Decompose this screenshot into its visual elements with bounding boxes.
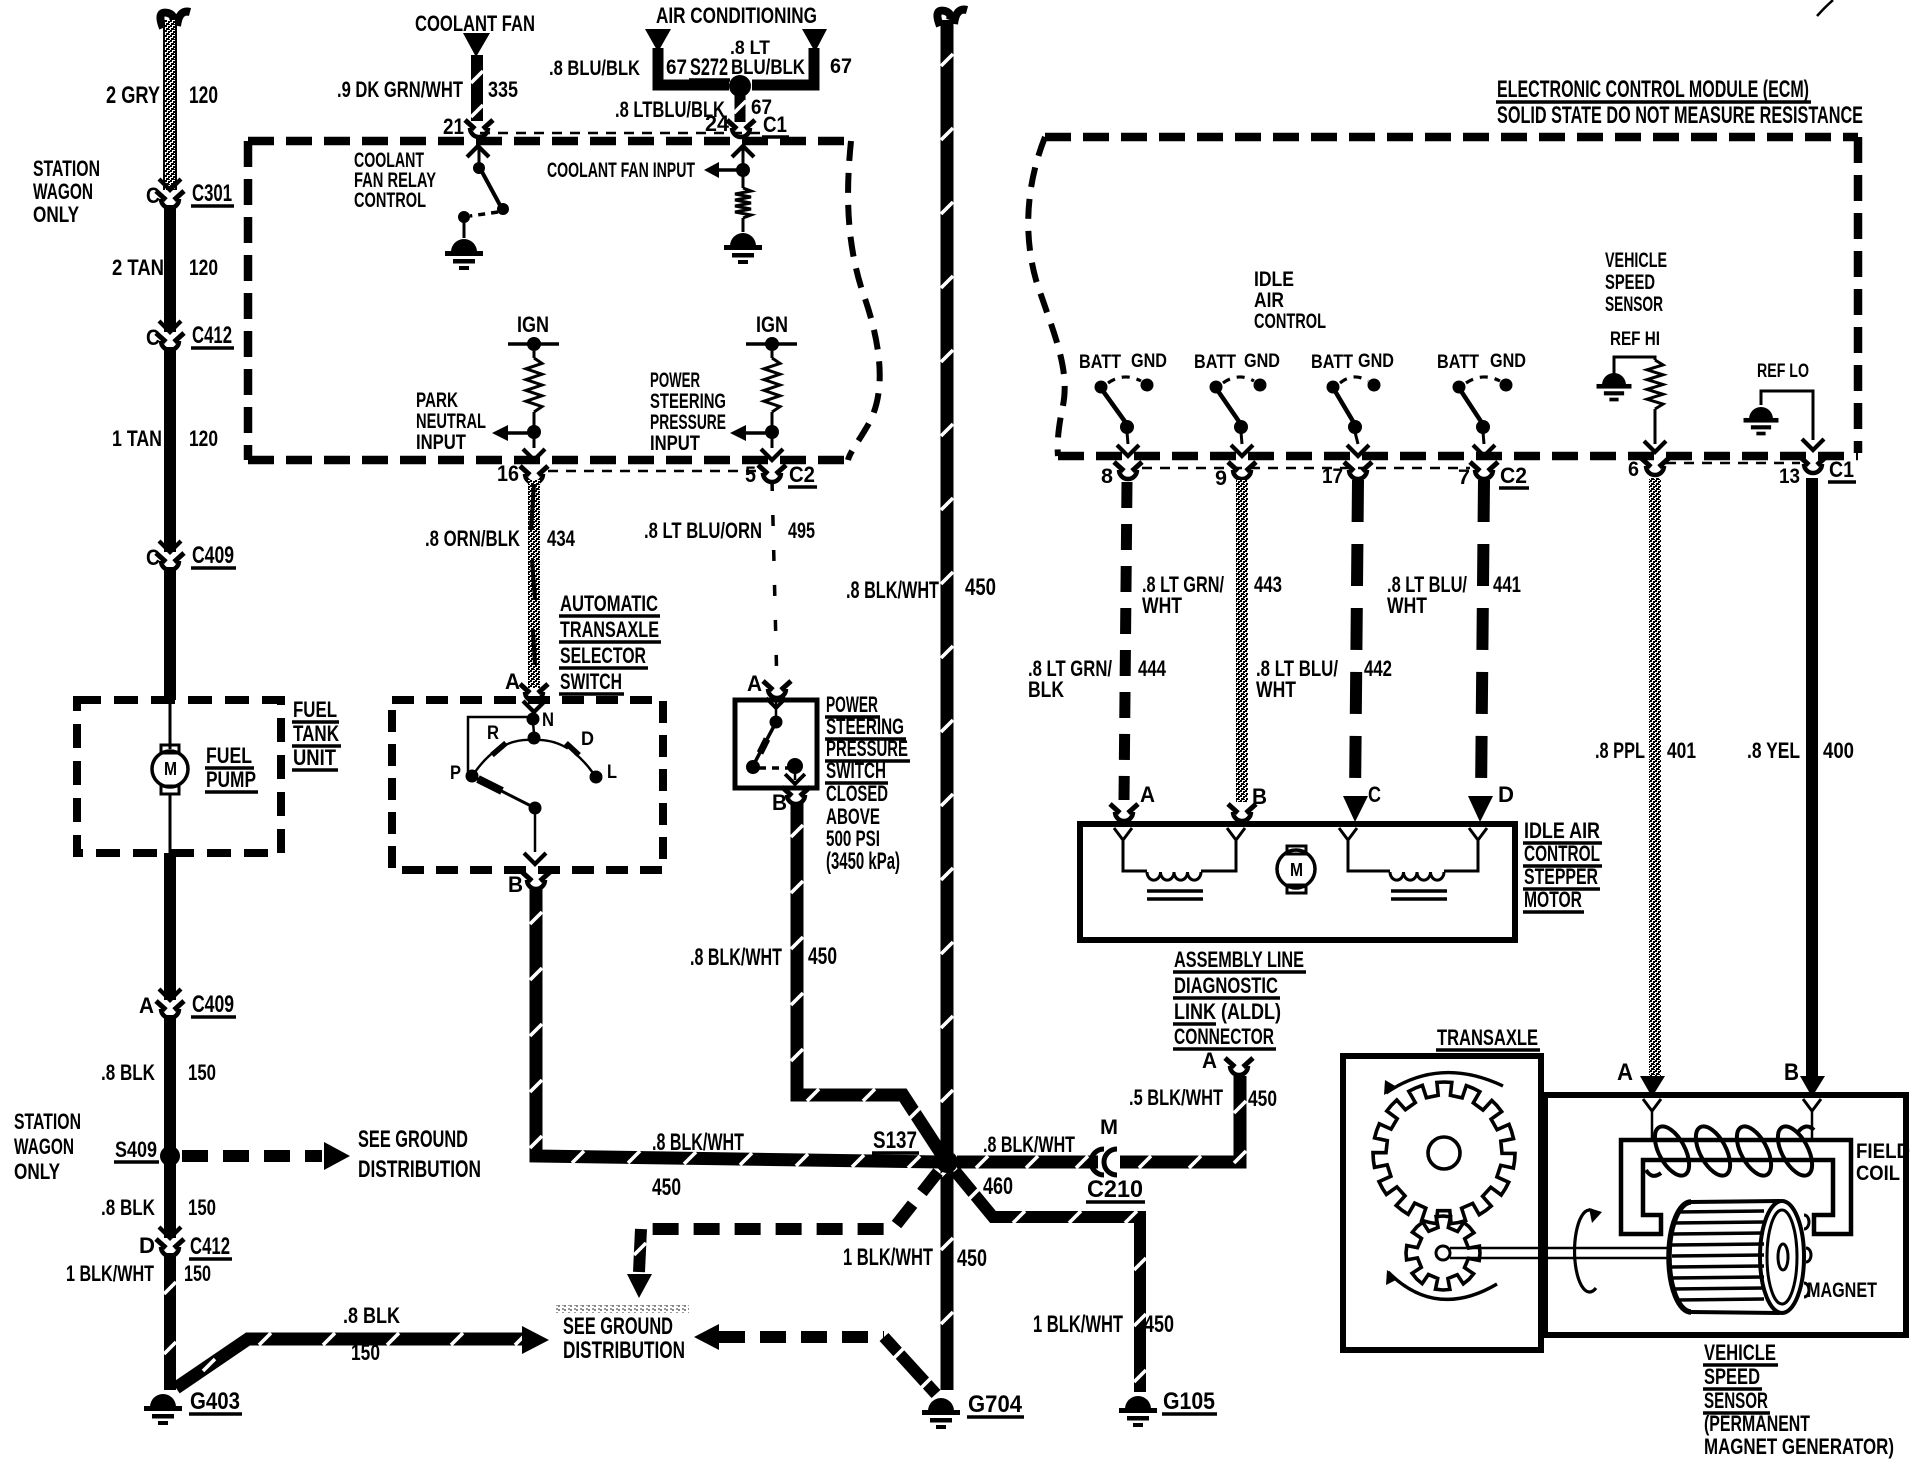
ground at coolant fan input xyxy=(730,233,756,246)
svg-text:CONTROL: CONTROL xyxy=(354,189,426,212)
svg-text:7: 7 xyxy=(1458,466,1470,489)
svg-text:442: 442 xyxy=(1364,656,1392,681)
C2 connector dashed line (right box) xyxy=(1142,467,1470,470)
svg-text:C: C xyxy=(1368,782,1381,807)
arrow down pin 7 xyxy=(1473,445,1495,456)
svg-text:500 PSI: 500 PSI xyxy=(826,826,880,851)
arrow down pin 6 xyxy=(1644,441,1666,452)
field coil winding xyxy=(1648,1121,1696,1181)
IGN bar (park neutral) xyxy=(508,342,559,346)
svg-text:SOLID STATE DO NOT MEASURE RES: SOLID STATE DO NOT MEASURE RESISTANCE xyxy=(1497,103,1863,129)
driver GND contact (pin 7) xyxy=(1500,379,1513,392)
svg-text:CLOSED: CLOSED xyxy=(826,781,888,806)
ps contact top xyxy=(770,716,783,729)
selector wiper pivot xyxy=(529,802,542,815)
arrow down to pin (power steering) xyxy=(761,449,783,460)
svg-text:GND: GND xyxy=(1131,350,1167,372)
wire dashed to G704 xyxy=(719,1331,884,1343)
wire .8 PPL 401 xyxy=(1649,478,1661,1076)
svg-text:C412: C412 xyxy=(190,1234,230,1260)
fuel tank unit box xyxy=(77,700,281,853)
relay switch arm xyxy=(481,170,501,207)
svg-text:L: L xyxy=(607,761,617,783)
resistor (power steering) xyxy=(771,351,774,358)
wire 1 TAN 120 xyxy=(164,347,176,552)
svg-text:AUTOMATIC: AUTOMATIC xyxy=(560,591,658,616)
selector wire to B xyxy=(534,812,537,852)
driver dashed arc (pin 17) xyxy=(1340,377,1368,383)
IGN bar (power steering) xyxy=(746,342,797,346)
svg-text:A: A xyxy=(1202,1048,1217,1073)
connector C409 lower (A) xyxy=(159,989,181,1000)
svg-text:REF LO: REF LO xyxy=(1757,360,1809,382)
magnet cylinder xyxy=(1669,1202,1691,1312)
wire .8 ORN/BLK 434 xyxy=(528,480,540,688)
selector wiper xyxy=(472,776,535,808)
svg-text:150: 150 xyxy=(184,1261,211,1286)
svg-text:UNIT: UNIT xyxy=(293,745,336,770)
svg-text:WAGON: WAGON xyxy=(33,179,93,204)
wire to pin 8 xyxy=(1127,432,1128,444)
driver arm contact (pin 9) xyxy=(1234,420,1248,434)
ground at coolant fan relay xyxy=(451,239,477,252)
ps arrow out xyxy=(794,772,797,780)
svg-text:9: 9 xyxy=(1215,467,1227,490)
svg-text:BATT: BATT xyxy=(1194,351,1236,373)
svg-text:.9 DK GRN/WHT: .9 DK GRN/WHT xyxy=(337,77,463,102)
svg-text:M: M xyxy=(164,759,177,779)
connector C412 lower (D) xyxy=(159,1227,181,1238)
svg-text:B: B xyxy=(772,790,787,815)
driver BATT contact (pin 9) xyxy=(1210,381,1223,394)
svg-text:COOLANT FAN INPUT: COOLANT FAN INPUT xyxy=(547,159,695,182)
svg-text:ASSEMBLY LINE: ASSEMBLY LINE xyxy=(1174,947,1304,972)
svg-text:WHT: WHT xyxy=(1256,677,1296,702)
ground at REF LO xyxy=(1749,407,1773,419)
wire .8 LT BLU/ORN 495 xyxy=(772,480,777,688)
wire 1 BLK/WHT 450 to G105 xyxy=(955,1171,1140,1392)
vss shaft xyxy=(1450,1247,1668,1250)
coolant fan input arrow xyxy=(704,162,719,178)
svg-text:1 TAN: 1 TAN xyxy=(112,426,162,451)
svg-text:(3450 kPa): (3450 kPa) xyxy=(826,849,900,875)
REF HI resistor xyxy=(1647,360,1663,409)
stray mark top right xyxy=(1817,0,1833,16)
svg-text:495: 495 xyxy=(788,518,815,543)
wire to pin (park neutral) xyxy=(533,436,536,448)
svg-text:.8 BLK/WHT: .8 BLK/WHT xyxy=(690,945,782,971)
arrow down see ground xyxy=(627,1274,652,1298)
coolant fan input arrow up xyxy=(732,146,754,157)
svg-text:16: 16 xyxy=(497,461,519,486)
svg-text:TRANSAXLE: TRANSAXLE xyxy=(1437,1025,1538,1050)
svg-text:FUEL: FUEL xyxy=(206,743,252,768)
svg-text:PUMP: PUMP xyxy=(206,767,256,792)
svg-text:.8 ORN/BLK: .8 ORN/BLK xyxy=(425,526,520,551)
svg-text:AIR: AIR xyxy=(1254,289,1284,312)
stepper motor M xyxy=(1287,846,1306,854)
svg-text:335: 335 xyxy=(488,77,518,102)
svg-text:450: 450 xyxy=(1144,1312,1174,1338)
svg-text:B: B xyxy=(1252,784,1267,809)
input arrow (park neutral) xyxy=(492,425,508,441)
node (power steering) xyxy=(765,425,779,439)
connector C210 (M) xyxy=(1091,1149,1104,1175)
stepper pin C vee xyxy=(1339,828,1357,840)
svg-text:G704: G704 xyxy=(968,1392,1023,1418)
svg-text:5: 5 xyxy=(745,462,756,487)
svg-text:120: 120 xyxy=(189,255,218,280)
svg-text:AIR CONDITIONING: AIR CONDITIONING xyxy=(656,3,817,28)
wire 442 (.8 LT BLU/WHT) xyxy=(1355,480,1358,800)
svg-text:120: 120 xyxy=(189,83,218,109)
svg-text:2 GRY: 2 GRY xyxy=(106,83,160,109)
driver GND contact (pin 17) xyxy=(1368,379,1381,392)
A/C arrow right xyxy=(802,29,827,52)
svg-text:WHT: WHT xyxy=(1142,593,1182,618)
stepper pin C arrow xyxy=(1343,796,1368,822)
stepper pin B cup xyxy=(1228,804,1238,813)
stepper right winding xyxy=(1348,840,1390,871)
svg-text:STATION: STATION xyxy=(14,1109,81,1134)
svg-text:BATT: BATT xyxy=(1311,351,1353,373)
svg-text:CONTROL: CONTROL xyxy=(1254,310,1326,333)
connector C412 xyxy=(159,321,181,332)
selector bracket to P xyxy=(468,717,527,772)
svg-text:IDLE: IDLE xyxy=(1254,268,1294,291)
svg-text:450: 450 xyxy=(652,1175,681,1201)
selector arrow in xyxy=(523,701,545,712)
svg-text:450: 450 xyxy=(957,1246,987,1272)
selector gate arc xyxy=(475,740,593,773)
svg-text:443: 443 xyxy=(1254,572,1282,597)
driver dashed arc (pin 9) xyxy=(1223,377,1254,383)
svg-text:C409: C409 xyxy=(192,543,234,569)
svg-text:A: A xyxy=(1617,1060,1633,1086)
coolant fan arrow xyxy=(463,33,490,57)
ps contact bl xyxy=(746,760,760,774)
driver GND contact (pin 8) xyxy=(1141,379,1154,392)
svg-text:21: 21 xyxy=(443,114,464,139)
wire .8 BLK 150 lower xyxy=(164,1160,176,1238)
svg-text:S409: S409 xyxy=(115,1137,157,1162)
wire below fuel tank xyxy=(164,853,176,1000)
svg-text:NEUTRAL: NEUTRAL xyxy=(416,410,486,433)
wire .8 BLK/WHT 450 (main vertical) xyxy=(941,20,954,1390)
selector R contact xyxy=(492,743,506,755)
svg-text:IGN: IGN xyxy=(756,312,788,337)
driver BATT contact (pin 17) xyxy=(1327,381,1340,394)
svg-text:A: A xyxy=(1140,782,1155,807)
idle air control stepper motor box xyxy=(1080,824,1515,940)
ground G105 xyxy=(1125,1396,1151,1409)
ground at REF HI xyxy=(1602,373,1626,385)
wire into pump xyxy=(169,700,172,749)
svg-text:.8 YEL: .8 YEL xyxy=(1747,738,1800,763)
node (park neutral) xyxy=(527,425,541,439)
driver BATT contact (pin 8) xyxy=(1095,381,1108,394)
svg-text:C: C xyxy=(146,545,160,570)
svg-text:DISTRIBUTION: DISTRIBUTION xyxy=(358,1157,481,1183)
resistor (park neutral) xyxy=(533,351,536,358)
arrow down pin 9 xyxy=(1231,445,1253,456)
arrow to see ground distribution (right) xyxy=(324,1142,350,1170)
svg-text:P: P xyxy=(450,762,461,784)
wire to pin (power steering) xyxy=(771,436,774,448)
selector N contact xyxy=(527,713,540,726)
svg-text:MAGNET GENERATOR): MAGNET GENERATOR) xyxy=(1704,1434,1894,1459)
wire .8 BLK 150 upper xyxy=(164,1015,176,1148)
svg-text:N: N xyxy=(542,709,554,731)
svg-text:13: 13 xyxy=(1779,465,1800,488)
wire .9 DK GRN/WHT 335 xyxy=(471,55,483,121)
svg-text:BATT: BATT xyxy=(1437,351,1479,373)
wire .8 YEL 400 xyxy=(1806,478,1818,1076)
svg-text:SWITCH: SWITCH xyxy=(560,669,622,694)
svg-text:1 BLK/WHT: 1 BLK/WHT xyxy=(1033,1312,1123,1338)
svg-text:B: B xyxy=(1784,1060,1799,1086)
svg-text:GND: GND xyxy=(1358,350,1394,372)
svg-text:INPUT: INPUT xyxy=(416,431,466,454)
svg-text:C301: C301 xyxy=(192,181,232,207)
A/C arrow left xyxy=(645,29,671,52)
svg-text:.8 PPL: .8 PPL xyxy=(1595,738,1645,763)
svg-text:C412: C412 xyxy=(192,323,232,349)
svg-text:C1: C1 xyxy=(763,112,787,137)
svg-text:SELECTOR: SELECTOR xyxy=(560,643,646,668)
transaxle small gear xyxy=(1406,1216,1480,1290)
driver switch arm (pin 17) xyxy=(1335,391,1354,423)
pin 24 connector xyxy=(727,120,737,129)
svg-text:DISTRIBUTION: DISTRIBUTION xyxy=(563,1338,685,1364)
C1 connector dashed line xyxy=(480,132,762,135)
arrow down to pin (park neutral) xyxy=(523,449,545,460)
magnet ribs xyxy=(1677,1211,1764,1212)
ps arrow in xyxy=(766,698,786,708)
A/C bus left xyxy=(658,48,729,85)
svg-text:COIL: COIL xyxy=(1856,1162,1900,1185)
stepper pin D vee xyxy=(1469,828,1487,840)
arrow down pin 17 xyxy=(1347,445,1369,456)
stepper right core xyxy=(1391,889,1447,893)
svg-text:TRANSAXLE: TRANSAXLE xyxy=(560,617,659,642)
relay contact c xyxy=(458,211,470,223)
wire dashed to ground distribution xyxy=(182,1150,322,1162)
svg-text:(PERMANENT: (PERMANENT xyxy=(1704,1411,1810,1436)
svg-text:IDLE AIR: IDLE AIR xyxy=(1524,818,1600,843)
svg-text:FIELD: FIELD xyxy=(1856,1140,1910,1163)
svg-text:441: 441 xyxy=(1493,572,1521,597)
ECM right box outline xyxy=(1045,133,1858,142)
fuel pump motor M xyxy=(161,745,179,753)
stepper left winding xyxy=(1123,840,1147,871)
svg-text:SWITCH: SWITCH xyxy=(826,758,886,783)
wire 450 hook top xyxy=(937,11,950,26)
A/C bus right xyxy=(752,48,814,85)
svg-text:A: A xyxy=(505,669,520,694)
selector D contact xyxy=(566,743,579,755)
svg-text:FUEL: FUEL xyxy=(293,697,337,722)
vss arrow B xyxy=(1800,1076,1825,1097)
selector arrow out xyxy=(524,853,546,864)
wire 441 (.8 LT BLU/WHT) xyxy=(1481,480,1484,798)
svg-text:C2: C2 xyxy=(789,462,815,487)
svg-text:C: C xyxy=(146,183,160,208)
driver GND contact (pin 9) xyxy=(1254,379,1267,392)
driver switch arm (pin 8) xyxy=(1103,391,1126,423)
driver arm contact (pin 8) xyxy=(1120,420,1134,434)
svg-text:S137: S137 xyxy=(873,1128,917,1154)
svg-text:TANK: TANK xyxy=(293,721,339,746)
label SEE GROUND DISTRIBUTION (mid) xyxy=(556,1305,689,1313)
svg-text:BLK: BLK xyxy=(1028,677,1064,702)
svg-text:434: 434 xyxy=(547,526,575,551)
stepper pin A cup xyxy=(1110,804,1120,813)
arrow down pin 8 xyxy=(1117,445,1139,456)
svg-text:400: 400 xyxy=(1823,738,1854,763)
svg-text:S272: S272 xyxy=(690,55,728,81)
relay switch contact a xyxy=(473,162,485,174)
splice S272 xyxy=(729,75,751,97)
wire 444 (.8 LT GRN/BLK) xyxy=(1124,482,1127,800)
svg-text:SEE GROUND: SEE GROUND xyxy=(563,1314,673,1340)
wire left feed hook top xyxy=(160,13,173,28)
svg-text:.8 BLU/BLK: .8 BLU/BLK xyxy=(549,57,640,80)
svg-text:67: 67 xyxy=(830,55,852,78)
coolant fan input resistor xyxy=(742,176,745,188)
svg-text:G403: G403 xyxy=(190,1389,240,1415)
svg-text:A: A xyxy=(139,993,154,1018)
svg-text:SENSOR: SENSOR xyxy=(1704,1388,1768,1413)
wire S272 to pin 24 xyxy=(735,95,746,122)
svg-text:REF HI: REF HI xyxy=(1610,328,1660,350)
svg-text:450: 450 xyxy=(1248,1086,1277,1111)
svg-text:150: 150 xyxy=(351,1340,380,1365)
svg-text:.8 BLK/WHT: .8 BLK/WHT xyxy=(652,1130,744,1156)
wire to ALDL xyxy=(1120,1076,1240,1162)
C2 connector dashed line (left box) xyxy=(548,470,756,473)
arrow see ground distribution 2 xyxy=(522,1326,549,1354)
shaft rotation arrow xyxy=(1575,1210,1596,1292)
svg-text:CONNECTOR: CONNECTOR xyxy=(1174,1024,1274,1049)
svg-text:ONLY: ONLY xyxy=(14,1159,60,1184)
svg-text:460: 460 xyxy=(983,1174,1013,1200)
svg-text:DIAGNOSTIC: DIAGNOSTIC xyxy=(1174,973,1278,998)
svg-text:1 BLK/WHT: 1 BLK/WHT xyxy=(843,1245,933,1271)
ps switch arm xyxy=(754,726,774,764)
svg-text:IGN: IGN xyxy=(517,312,549,337)
svg-text:BATT: BATT xyxy=(1079,351,1121,373)
arrow down pin 13 xyxy=(1802,439,1824,450)
svg-text:VEHICLE: VEHICLE xyxy=(1704,1340,1776,1365)
wire 2 GRY 120 (station wagon feed) xyxy=(164,20,176,190)
svg-text:.8 BLK: .8 BLK xyxy=(101,1195,155,1220)
REF LO bracket xyxy=(1761,391,1813,440)
svg-text:M: M xyxy=(1100,1116,1118,1139)
wire pump to box bottom xyxy=(169,794,172,853)
svg-text:C1: C1 xyxy=(1829,457,1854,482)
wire .8 BLK/WHT 450 (selector B) xyxy=(536,888,941,1162)
svg-text:120: 120 xyxy=(189,426,218,451)
svg-text:SPEED: SPEED xyxy=(1605,271,1655,294)
connector C409 xyxy=(159,541,181,552)
driver dashed arc (pin 7) xyxy=(1466,377,1500,383)
svg-text:8: 8 xyxy=(1101,465,1113,488)
magnet edge bumps xyxy=(1804,1215,1809,1229)
svg-text:2 TAN: 2 TAN xyxy=(112,255,164,280)
transaxle rotation arc bottom xyxy=(1388,1272,1497,1299)
svg-text:D: D xyxy=(139,1233,155,1258)
stepper pin B vee xyxy=(1227,828,1245,840)
vss pin A vee xyxy=(1643,1099,1661,1111)
svg-text:STEPPER: STEPPER xyxy=(1524,864,1598,889)
svg-text:.8 BLK: .8 BLK xyxy=(101,1060,155,1085)
input arrow (power steering) xyxy=(730,425,746,441)
svg-text:SEE GROUND: SEE GROUND xyxy=(358,1127,468,1153)
pin 21 connector xyxy=(465,120,475,129)
selector hub xyxy=(533,722,534,734)
svg-text:SENSOR: SENSOR xyxy=(1605,293,1663,316)
ground G403 xyxy=(150,1394,176,1407)
C1 connector dashed line (right box) xyxy=(1666,462,1800,465)
transaxle box xyxy=(1343,1056,1541,1350)
svg-text:POWER: POWER xyxy=(650,369,700,392)
transaxle big gear xyxy=(1373,1082,1515,1224)
driver arm contact (pin 17) xyxy=(1348,420,1362,434)
svg-text:ONLY: ONLY xyxy=(33,202,79,227)
wire 1 BLK/WHT 150 xyxy=(164,1253,176,1390)
wire 2 TAN 120 xyxy=(164,205,176,332)
transaxle rotation arc top xyxy=(1386,1073,1503,1093)
svg-text:D: D xyxy=(1498,782,1514,807)
wire .8 BLK/WHT 460 xyxy=(957,1156,1098,1169)
driver dashed arc (pin 8) xyxy=(1108,377,1141,383)
svg-text:PRESSURE: PRESSURE xyxy=(650,411,726,434)
field coil core xyxy=(1621,1140,1851,1234)
vss pin B vee xyxy=(1803,1099,1821,1111)
power steering switch box xyxy=(735,700,817,788)
svg-text:GND: GND xyxy=(1490,350,1526,372)
selector P contact xyxy=(466,770,479,783)
driver switch arm (pin 9) xyxy=(1218,391,1240,423)
relay ground wire xyxy=(463,221,466,238)
svg-text:401: 401 xyxy=(1667,738,1696,763)
selector L contact xyxy=(590,771,603,784)
stepper pin D arrow xyxy=(1468,796,1493,822)
svg-text:.8 LT BLU/ORN: .8 LT BLU/ORN xyxy=(644,518,762,543)
splice S409 xyxy=(160,1146,180,1166)
wire to fuel tank xyxy=(164,567,176,700)
svg-text:A: A xyxy=(747,671,762,696)
svg-text:450: 450 xyxy=(965,575,996,601)
svg-text:450: 450 xyxy=(808,944,837,970)
vss arrow A xyxy=(1640,1076,1665,1097)
svg-text:D: D xyxy=(581,728,594,750)
driver BATT contact (pin 7) xyxy=(1453,381,1466,394)
connector C301 xyxy=(159,179,181,190)
svg-text:.5 BLK/WHT: .5 BLK/WHT xyxy=(1129,1085,1223,1110)
svg-text:MAGNET: MAGNET xyxy=(1807,1279,1877,1302)
driver switch arm (pin 7) xyxy=(1461,391,1482,423)
svg-text:C2: C2 xyxy=(1500,463,1527,488)
vehicle speed sensor box xyxy=(1545,1095,1906,1335)
svg-text:.8 BLK/WHT: .8 BLK/WHT xyxy=(983,1132,1075,1157)
svg-text:BLU/BLK: BLU/BLK xyxy=(731,56,805,79)
splice S137 xyxy=(936,1151,958,1173)
svg-text:INPUT: INPUT xyxy=(650,432,700,455)
svg-text:SPEED: SPEED xyxy=(1704,1364,1760,1389)
svg-text:WHT: WHT xyxy=(1387,593,1427,618)
